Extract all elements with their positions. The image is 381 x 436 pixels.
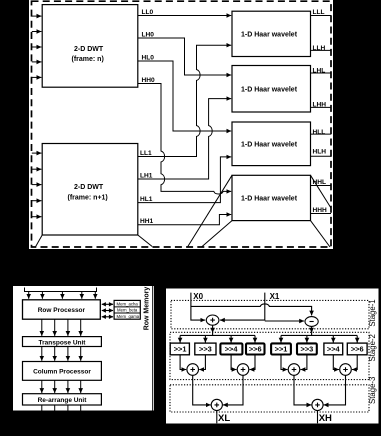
X0 input wire [191, 293, 205, 321]
final adder R [312, 399, 323, 410]
feed arrow 4 [81, 292, 83, 299]
mem bus arrow 1 [102, 303, 113, 305]
wire >>4R to c4 [333, 355, 339, 370]
shifter box >>3 left [195, 343, 216, 355]
Haar block 3 [232, 122, 311, 166]
svg-text:HLL: HLL [313, 129, 326, 136]
projection diagonal A [202, 221, 233, 247]
svg-text:X0: X0 [193, 292, 203, 301]
Transpose Unit box [23, 337, 102, 347]
svg-text:LH1: LH1 [140, 172, 153, 179]
svg-text:HH0: HH0 [142, 77, 156, 84]
X0 cross wire to subtractor (hops X1 wire) [191, 304, 312, 316]
CP to RU arrows [41, 380, 43, 393]
Haar block 2 [232, 66, 311, 113]
svg-text:HHL: HHL [313, 179, 327, 186]
svg-text:2-D DWT: 2-D DWT [74, 46, 104, 53]
X1 input wire [264, 293, 266, 321]
wire LL0 [138, 15, 231, 17]
wire c4 to final R [324, 376, 346, 405]
shifter box >>3 right (bold) [297, 343, 317, 354]
top figure dashed frame [32, 1, 332, 247]
svg-text:>>6: >>6 [351, 345, 364, 354]
wire >>3R to c3 [301, 355, 307, 370]
mem bus arrow 3 [102, 316, 113, 318]
svg-text:1-D Haar wavelet: 1-D Haar wavelet [241, 196, 298, 203]
top figure labels [68, 32, 298, 203]
svg-text:>>1: >>1 [275, 345, 288, 354]
wire >>1L to c1 [180, 355, 186, 370]
svg-text:Row Processor: Row Processor [38, 307, 86, 314]
shifter box >>6 right [347, 343, 367, 355]
wire >>3L to c1 [199, 355, 205, 370]
wire LL1 [138, 45, 231, 156]
svg-text:LH0: LH0 [142, 31, 155, 38]
input arrows DWT2 [32, 152, 42, 154]
svg-text:LHH: LHH [313, 102, 327, 109]
svg-text:1-D Haar wavelet: 1-D Haar wavelet [241, 32, 298, 39]
manifold arrows right group [280, 335, 282, 342]
wire >>4L to c2 [231, 355, 236, 370]
wire c3 to final R [294, 376, 311, 405]
RP to TU arrows [41, 319, 43, 336]
projection diagonal E [36, 235, 43, 247]
adder S2 c3 [288, 364, 300, 376]
svg-text:Stage-1: Stage-1 [368, 299, 377, 326]
Row Processor box [23, 300, 101, 319]
svg-text:LHL: LHL [313, 67, 326, 74]
shifter box >>4 left (bold) [220, 343, 242, 354]
shifter box >>1 right (bold) [271, 343, 291, 354]
projection diagonal F [138, 235, 152, 247]
svg-text:HLH: HLH [313, 148, 327, 155]
wire >>1R to c3 [281, 355, 288, 370]
top figure white panel [29, 0, 333, 249]
input arrows DWT1 [32, 15, 42, 17]
svg-text:>>3: >>3 [301, 345, 314, 354]
wire HH1 [138, 215, 231, 225]
manifold arrows left group [179, 335, 181, 342]
svg-text:>>6: >>6 [249, 345, 262, 354]
svg-text:Transpose Unit: Transpose Unit [39, 339, 87, 346]
svg-text:2-D DWT: 2-D DWT [74, 184, 104, 191]
Mem divider 1 [114, 306, 140, 308]
XH output [317, 411, 319, 424]
svg-text:X1: X1 [270, 292, 280, 301]
Re-arrange Unit box [23, 394, 102, 405]
2-D DWT frame n box [42, 5, 138, 88]
svg-text:>>4: >>4 [327, 345, 341, 354]
Stage-3 dotted box [170, 385, 369, 412]
svg-text:LLH: LLH [313, 45, 326, 52]
projection diagonal C [188, 175, 233, 247]
output LHL [311, 72, 332, 74]
adder S2 c2 [237, 364, 249, 376]
feed arrow 5 [94, 292, 96, 299]
wire LH1 [138, 99, 231, 179]
feed arrow 3 [61, 292, 63, 299]
Haar block 4 [232, 175, 311, 220]
bottom-right labels [193, 292, 280, 301]
wire >>6L to c2 [250, 355, 256, 370]
svg-text:LLL: LLL [313, 9, 325, 16]
wire HH0 [138, 84, 231, 195]
svg-text:Re-arrange Unit: Re-arrange Unit [38, 397, 88, 404]
input feed line [25, 288, 97, 292]
svg-text:HL1: HL1 [140, 196, 153, 203]
minus output to stage2 manifold [311, 326, 313, 332]
subtractor S1 minus [305, 317, 318, 327]
svg-text:>>3: >>3 [199, 345, 212, 354]
svg-text:HHH: HHH [313, 207, 328, 214]
svg-text:Row Memory: Row Memory [143, 287, 150, 331]
Column Processor box [23, 362, 102, 381]
bottom-left figure white panel [13, 286, 154, 411]
wire c1 to final L [193, 376, 211, 405]
output HHL [311, 185, 332, 187]
shifter box >>4 right [324, 343, 343, 355]
svg-text:Mem_acha: Mem_acha [117, 301, 139, 306]
wire LH0 [138, 38, 231, 75]
XL output [216, 411, 218, 424]
svg-text:XL: XL [218, 413, 230, 424]
svg-text:1-D Haar wavelet: 1-D Haar wavelet [241, 142, 298, 149]
svg-text:Mem_beta: Mem_beta [117, 308, 138, 313]
bottom-right figure white panel [166, 289, 379, 424]
mem bus arrow 2 [102, 310, 113, 312]
output HLL [311, 133, 332, 135]
wire HL1 [138, 157, 231, 203]
svg-text:Column Processor: Column Processor [33, 369, 91, 376]
svg-text:(frame: n+1): (frame: n+1) [68, 195, 108, 202]
svg-text:XH: XH [319, 413, 332, 424]
output LLL [311, 15, 332, 17]
bottom-left labels [33, 307, 91, 404]
projection diagonal B [311, 221, 331, 247]
wire >>6R to c4 [352, 355, 357, 370]
shifter box >>6 left (bold) [246, 343, 265, 354]
projection diagonal D [311, 175, 332, 208]
wire HL0 [138, 61, 231, 131]
svg-text:Stage-3: Stage-3 [368, 377, 377, 404]
output HLH [311, 155, 332, 157]
Mem bank outer box [114, 300, 140, 319]
svg-text:Mem_gama: Mem_gama [117, 314, 140, 319]
Stage-2 dotted box [170, 332, 369, 379]
Stage-1 dotted box [171, 300, 369, 328]
feed arrow 2 [41, 292, 43, 299]
svg-text:>>4: >>4 [225, 345, 239, 354]
svg-text:LL0: LL0 [142, 9, 154, 16]
adder S1 plus [206, 315, 219, 325]
Mem divider 2 [114, 312, 140, 314]
X1 arm to subtractor [265, 320, 304, 322]
adder S2 c1 [187, 364, 199, 376]
svg-text:(frame: n): (frame: n) [72, 56, 104, 63]
X1 arm to adder [220, 319, 265, 321]
adder S2 c4 [340, 364, 352, 376]
svg-text:HH1: HH1 [140, 218, 154, 225]
svg-text:HL0: HL0 [142, 54, 155, 61]
Haar block 1 [232, 11, 311, 56]
shifter box >>1 left [170, 343, 189, 355]
svg-text:Stage-2: Stage-2 [368, 334, 377, 361]
RU output stubs [41, 405, 43, 411]
plus output to stage2 manifold [212, 325, 214, 332]
output LLH [311, 49, 332, 51]
svg-text:LL1: LL1 [140, 150, 152, 157]
feed arrow 1 [28, 292, 30, 299]
final adder L [211, 399, 222, 410]
bottom-left figure right frame line [152, 286, 154, 411]
svg-text:>>1: >>1 [174, 345, 187, 354]
output HHH [311, 213, 332, 215]
wire c2 to final L [223, 376, 243, 405]
TU to CP arrows [41, 347, 43, 361]
2-D DWT frame n+1 box [42, 144, 138, 236]
output LHH [311, 106, 332, 108]
svg-text:1-D Haar wavelet: 1-D Haar wavelet [241, 87, 298, 94]
